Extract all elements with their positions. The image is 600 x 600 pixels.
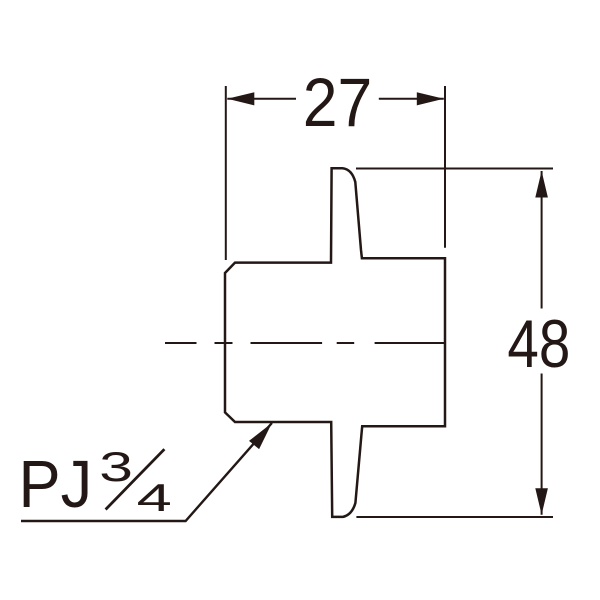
svg-text:27: 27 <box>303 64 373 141</box>
svg-text:4: 4 <box>137 477 172 520</box>
dimension 48 arrow top <box>535 171 548 198</box>
dimension 48 extension line bottom <box>356 516 553 518</box>
dimension 48 extension line top <box>356 168 553 170</box>
leader arrowhead <box>249 423 272 449</box>
svg-text:3: 3 <box>99 443 133 490</box>
svg-text:48: 48 <box>507 306 570 382</box>
dimension 27 arrow left <box>227 92 254 105</box>
leader line for PJ3/4 <box>21 423 272 521</box>
dimension 27 extension line left <box>225 86 227 260</box>
svg-text:PJ: PJ <box>19 448 93 522</box>
label fraction slash <box>106 449 165 509</box>
dimension 27 arrow right <box>417 92 444 105</box>
centerline <box>165 342 445 344</box>
dimension 48 arrow bottom <box>535 488 548 515</box>
dimension 27 extension line right <box>444 86 446 248</box>
dimension 48 line <box>541 171 543 515</box>
part outline <box>225 168 445 517</box>
dimension 27 line <box>227 98 443 100</box>
